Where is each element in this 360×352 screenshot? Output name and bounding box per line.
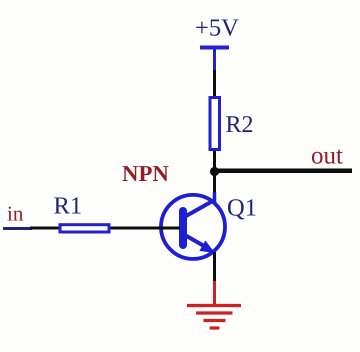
ground symbol xyxy=(187,306,241,329)
svg-text:out: out xyxy=(311,143,343,170)
wire in to R1 xyxy=(30,227,60,230)
wire in terminal (blue stub) xyxy=(3,227,32,230)
svg-text:R1: R1 xyxy=(54,193,83,220)
svg-text:NPN: NPN xyxy=(122,161,169,186)
node collector junction xyxy=(210,167,219,176)
transistor Q1 collector stroke xyxy=(186,200,215,216)
svg-text:Q1: Q1 xyxy=(227,195,257,222)
svg-text:+5V: +5V xyxy=(195,15,239,42)
wire out xyxy=(215,169,353,174)
resistor R1 xyxy=(60,225,109,232)
transistor Q1 emitter stroke with arrow xyxy=(184,235,215,254)
wire node to transistor collector xyxy=(213,171,216,201)
wire collector stub (blue) xyxy=(213,193,217,203)
wire emitter to ground (black segment) xyxy=(213,252,216,283)
resistor R2 xyxy=(210,98,220,150)
wire R2 to collector node xyxy=(213,151,216,172)
svg-text:in: in xyxy=(7,202,24,226)
svg-text:R2: R2 xyxy=(226,112,254,138)
wire power to R2 xyxy=(213,70,216,97)
wire ground (red segment) xyxy=(213,281,216,305)
wire R1 to base xyxy=(111,227,181,230)
transistor Q1 circle xyxy=(161,195,225,259)
power +5V rail symbol xyxy=(200,48,229,72)
transistor Q1 base bar xyxy=(179,211,187,245)
